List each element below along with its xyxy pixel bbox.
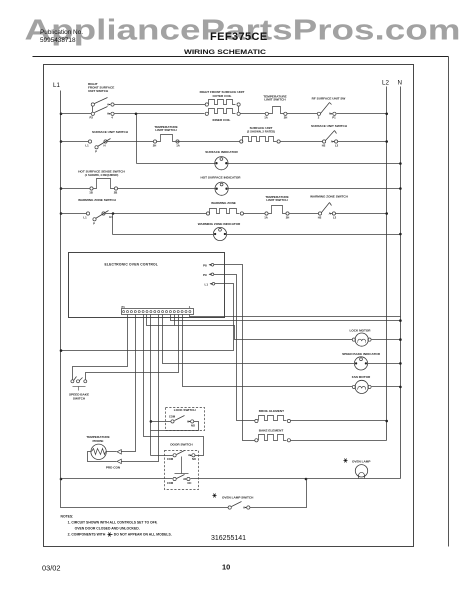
wire chevron to pin3: [122, 315, 136, 452]
svg-text:P1: P1: [332, 116, 336, 120]
connector strip P1: [122, 309, 194, 315]
wire probe left to chevron bottom: [88, 452, 117, 462]
svg-text:DOOR SWITCH: DOOR SWITCH: [170, 442, 193, 446]
svg-text:L1: L1: [83, 216, 87, 220]
wire P8 to bake element: [214, 265, 255, 441]
wire P9 to broil element: [214, 275, 255, 421]
svg-text:SPEED BAKE INDICATOR: SPEED BAKE INDICATOR: [342, 352, 381, 356]
limit switch row2: [153, 140, 156, 143]
svg-text:L2: L2: [382, 80, 389, 87]
wire lock motor to N: [372, 339, 401, 341]
svg-text:UNIT SWITCH: UNIT SWITCH: [88, 89, 109, 93]
svg-text:A: A: [243, 505, 245, 509]
junction L2 broil: [385, 420, 388, 423]
junction L2 row2: [385, 140, 388, 143]
wire L1 to warming zone switch: [61, 213, 87, 215]
resistor warming zone coil: [206, 212, 209, 215]
wire switch to warming coil: [106, 213, 207, 215]
svg-text:OVEN LAMP: OVEN LAMP: [352, 459, 370, 463]
svg-text:PROBE: PROBE: [92, 439, 103, 443]
resistor temperature probe: [91, 444, 106, 459]
switch door lower contact: [173, 477, 176, 480]
wire coil to switch row2: [281, 141, 323, 143]
svg-text:INNER COIL: INNER COIL: [213, 118, 231, 122]
switch surface unit row2: [88, 140, 91, 143]
wire drop row1 to surface indicator row: [136, 114, 138, 164]
L1 bus wire: [60, 91, 62, 479]
svg-text:2H: 2H: [153, 144, 157, 148]
wire to surface indicator: [137, 163, 215, 165]
svg-text:A: A: [331, 139, 333, 143]
wire hot surface indicator to N: [229, 188, 401, 190]
svg-text:03/02: 03/02: [42, 564, 61, 573]
svg-text:P8: P8: [203, 263, 207, 267]
junction warming indicator branch: [112, 212, 115, 215]
junction L2 row1: [385, 113, 388, 116]
wire to hot surface indicator: [118, 188, 216, 190]
svg-text:WARMING ZONE: WARMING ZONE: [211, 201, 236, 205]
switch warming zone right: [318, 212, 321, 215]
junction row1 to row indicator drop: [135, 113, 138, 116]
svg-text:OVEN LAMP SWITCH: OVEN LAMP SWITCH: [222, 496, 254, 500]
oven lamp switch label with star: [213, 495, 217, 497]
heating element bake: [255, 439, 258, 442]
svg-text:FAN MOTOR: FAN MOTOR: [352, 375, 371, 379]
svg-text:(2 SHOWN, 2 RATED): (2 SHOWN, 2 RATED): [247, 130, 275, 134]
wire to L2 row2: [338, 141, 387, 143]
svg-text:LOCK MOTOR: LOCK MOTOR: [349, 328, 371, 332]
junction N lock motor: [399, 338, 402, 341]
svg-text:P1: P1: [122, 305, 126, 309]
svg-text:COM: COM: [167, 481, 174, 485]
switch RF surface unit sw: [317, 112, 320, 115]
oven lamp label with star: [344, 460, 348, 462]
svg-text:OUTER COIL: OUTER COIL: [212, 94, 231, 98]
wire joining coils: [238, 107, 240, 113]
svg-text:2: 2: [318, 116, 320, 120]
motor lock motor: [352, 338, 355, 341]
wire pin16 to fan motor: [183, 315, 353, 387]
svg-text:4: 4: [111, 116, 113, 120]
wire L1 to surface unit switch: [61, 141, 89, 143]
svg-text:PRD CON: PRD CON: [106, 465, 121, 469]
wire pin5 to door switch no: [144, 315, 204, 456]
wire riser to door com: [151, 455, 173, 457]
wire pin15 to speed bake switch right: [86, 315, 179, 380]
svg-text:2H: 2H: [286, 216, 290, 220]
svg-text:LIMIT SWITCH: LIMIT SWITCH: [264, 98, 286, 102]
svg-text:LOCK SWITCH: LOCK SWITCH: [174, 408, 197, 412]
heating element broil: [255, 419, 258, 422]
junction N fan motor: [399, 386, 402, 389]
svg-text:A: A: [107, 102, 109, 106]
wire switch to outer coil: [115, 104, 206, 106]
svg-text:L1: L1: [205, 282, 209, 286]
lamp hot surface indicator: [215, 182, 228, 195]
wire L1 to RF switch: [61, 113, 92, 115]
junction L1 hot surface row: [60, 187, 63, 190]
svg-text:WARMING ZONE SWITCH: WARMING ZONE SWITCH: [310, 194, 349, 198]
header rule: [33, 56, 449, 58]
wire surface indicator to N: [228, 163, 401, 165]
wire coils to limit switch: [241, 113, 266, 115]
svg-text:NO: NO: [191, 423, 195, 427]
svg-text:H2: H2: [322, 144, 326, 148]
junction N upper row: [399, 319, 402, 322]
resistor surface unit coil: [240, 140, 243, 143]
svg-text:A: A: [329, 112, 331, 116]
wire L1 drop to lamp switch row: [61, 479, 229, 508]
switch oven lamp switch: [228, 506, 231, 509]
junction lock switch feed: [150, 420, 153, 423]
svg-text:316255141: 316255141: [211, 535, 246, 542]
switch warming zone: [86, 212, 89, 215]
limit switch row1: [265, 112, 268, 115]
connector PRD CON bottom: [117, 459, 121, 463]
svg-text:WIRING SCHEMATIC: WIRING SCHEMATIC: [184, 49, 266, 56]
switch speed bake: [71, 380, 74, 383]
wire L1 to hot surface sense switch: [61, 188, 90, 190]
wire L1 input to L1 bus: [61, 284, 234, 351]
junction L1 bus EOC feed: [60, 349, 63, 352]
svg-text:LIMIT SWITCH: LIMIT SWITCH: [155, 128, 177, 132]
wire speed bake indicator to N: [368, 363, 401, 365]
wire broil to L2: [291, 420, 387, 422]
svg-text:NO: NO: [192, 457, 196, 461]
N bus wire: [400, 87, 402, 479]
svg-text:BROIL ELEMENT: BROIL ELEMENT: [259, 409, 284, 413]
schematic border box: [44, 65, 414, 547]
svg-text:WARMING ZONE INDICATOR: WARMING ZONE INDICATOR: [198, 222, 241, 226]
svg-text:FEF375CE: FEF375CE: [210, 31, 268, 43]
wire pin13 to N: [171, 315, 401, 321]
connector pins: [123, 311, 125, 313]
svg-text:H2: H2: [318, 216, 322, 220]
junction N speed bake indicator: [399, 362, 402, 365]
resistor outer coil: [205, 103, 208, 106]
svg-text:P2: P2: [90, 116, 94, 120]
wire coil to limit switch warming: [244, 213, 265, 215]
switch surface unit right: [323, 140, 326, 143]
svg-text:N: N: [398, 80, 402, 87]
svg-text:LIMIT SWITCH: LIMIT SWITCH: [266, 198, 288, 202]
lamp surface indicator: [215, 157, 228, 170]
wire pin7 riser to lock and door com: [150, 315, 152, 456]
door switch box: [165, 451, 199, 490]
junction L1 row1: [60, 113, 63, 116]
wire to surface unit coil: [177, 141, 240, 143]
svg-text:2B: 2B: [114, 191, 118, 195]
svg-text:SURFACE UNIT SWITCH: SURFACE UNIT SWITCH: [92, 130, 129, 134]
svg-text:2H: 2H: [284, 116, 288, 120]
junction N warming indicator: [399, 233, 402, 236]
wire lock switch no return: [151, 422, 199, 431]
svg-text:COM: COM: [169, 415, 176, 419]
page right edge line: [448, 57, 450, 547]
connector PRD CON top: [117, 450, 121, 454]
svg-text:COM: COM: [167, 457, 174, 461]
svg-text:A: A: [329, 211, 331, 215]
wire pin10 to speed bake indicator: [163, 315, 355, 364]
lamp oven lamp: [355, 465, 367, 477]
wire chevron bottom to pin9: [122, 315, 159, 462]
wire fan motor to N: [372, 386, 401, 388]
wire to L2 warming row: [336, 213, 387, 215]
lamp warming zone indicator: [213, 227, 226, 240]
svg-text:5995438718: 5995438718: [40, 37, 76, 44]
svg-text:RF SURFACE UNIT SW: RF SURFACE UNIT SW: [312, 97, 346, 101]
svg-text:A: A: [187, 419, 189, 423]
svg-text:A: A: [183, 477, 185, 481]
limit switch warming: [265, 212, 268, 215]
wire switch to limit switch row2: [108, 141, 154, 143]
limit switch hot surface sense: [90, 187, 93, 190]
svg-text:OVEN DOOR CLOSED AND UNLOCKED.: OVEN DOOR CLOSED AND UNLOCKED.: [75, 526, 140, 530]
wire probe to chevron top: [107, 451, 117, 453]
svg-text:L2: L2: [333, 216, 337, 220]
wire to warming zone indicator: [113, 234, 214, 236]
junction L1 oven lamp row: [60, 478, 63, 481]
svg-text:BAKE ELEMENT: BAKE ELEMENT: [259, 429, 284, 433]
svg-text:HOT SURFACE INDICATOR: HOT SURFACE INDICATOR: [201, 175, 242, 179]
wire to lock switch com: [151, 421, 171, 423]
resistor inner coil: [205, 112, 208, 115]
svg-text:SURFACE UNIT SWITCH: SURFACE UNIT SWITCH: [311, 124, 348, 128]
wire warming indicator to N: [227, 234, 401, 236]
svg-text:L2: L2: [335, 144, 339, 148]
svg-text:1B: 1B: [89, 191, 93, 195]
svg-text:2. COMPONENTS WITH: 2. COMPONENTS WITH: [68, 533, 106, 537]
svg-text:NOTES:: NOTES:: [61, 515, 74, 519]
lamp speed bake indicator: [354, 357, 367, 370]
wire pin14 stub: [174, 315, 176, 326]
junction oven lamp switch riser: [305, 478, 308, 481]
wire pin14 to lock motor: [147, 315, 353, 340]
svg-text:P: P: [95, 149, 97, 153]
junction N surface indicator: [399, 162, 402, 165]
wire bake to L2: [291, 440, 387, 442]
svg-text:SURFACE INDICATOR: SURFACE INDICATOR: [205, 150, 238, 154]
svg-text:P: P: [93, 221, 95, 225]
svg-text:1. CIRCUIT SHOWN WITH ALL CON: 1. CIRCUIT SHOWN WITH ALL CONTROLS SET T…: [68, 520, 158, 524]
svg-text:1A: 1A: [264, 116, 268, 120]
wire door switch to lamp: [191, 478, 401, 480]
wire limit switch to RF unit sw: [287, 113, 318, 115]
svg-text:NC: NC: [188, 481, 192, 485]
svg-text:10: 10: [222, 563, 230, 572]
door switch plunger link: [181, 457, 183, 474]
svg-text:SWITCH: SWITCH: [73, 397, 86, 401]
svg-text:A: A: [188, 453, 190, 457]
wire switch to inner coil: [115, 113, 205, 115]
svg-text:(1 SHOWN, 4 REQUIRED): (1 SHOWN, 4 REQUIRED): [85, 173, 119, 177]
wire lamp switch to riser: [250, 479, 307, 508]
switch RF surface unit (double pole): [91, 103, 94, 106]
wire to warming zone switch right: [290, 213, 319, 215]
svg-text:A: A: [107, 112, 109, 116]
switch door upper contact: [173, 454, 176, 457]
op-box electronic oven control U1: [69, 253, 225, 318]
junction N hot surface indicator: [399, 187, 402, 190]
svg-text:H: H: [103, 144, 105, 148]
junction L1 warming zone row: [60, 212, 63, 215]
svg-text:P9: P9: [203, 273, 207, 277]
junction L2 warming row: [385, 212, 388, 215]
lock switch box: [166, 408, 205, 431]
svg-text:1A: 1A: [264, 216, 268, 220]
svg-text:Publication No.: Publication No.: [40, 29, 83, 36]
svg-text:L1: L1: [85, 144, 89, 148]
wire L1 to door switch lower: [61, 478, 173, 480]
svg-text:DO NOT APPEAR ON ALL MODELS.: DO NOT APPEAR ON ALL MODELS.: [114, 533, 172, 537]
svg-text:L1: L1: [53, 82, 60, 89]
motor fan motor: [352, 385, 355, 388]
L2 bus wire: [386, 87, 388, 441]
svg-text:ELECTRONIC OVEN CONTROL: ELECTRONIC OVEN CONTROL: [105, 262, 159, 266]
wire pin18 to N upper: [190, 315, 401, 317]
svg-text:WARMING ZONE SWITCH: WARMING ZONE SWITCH: [78, 198, 117, 202]
junction L1 row2: [60, 140, 63, 143]
wire to L2 row1: [337, 113, 387, 115]
wire pin1 to speed bake switch left: [73, 315, 128, 380]
wire drop to warming indicator row: [112, 214, 114, 235]
svg-text:1A: 1A: [176, 144, 180, 148]
